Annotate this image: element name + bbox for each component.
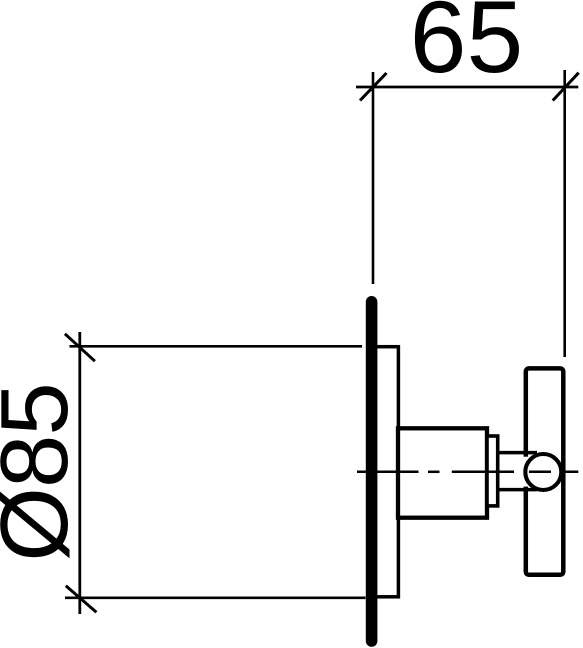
svg-text:65: 65 — [410, 0, 523, 94]
svg-text:Ø85: Ø85 — [0, 383, 88, 561]
